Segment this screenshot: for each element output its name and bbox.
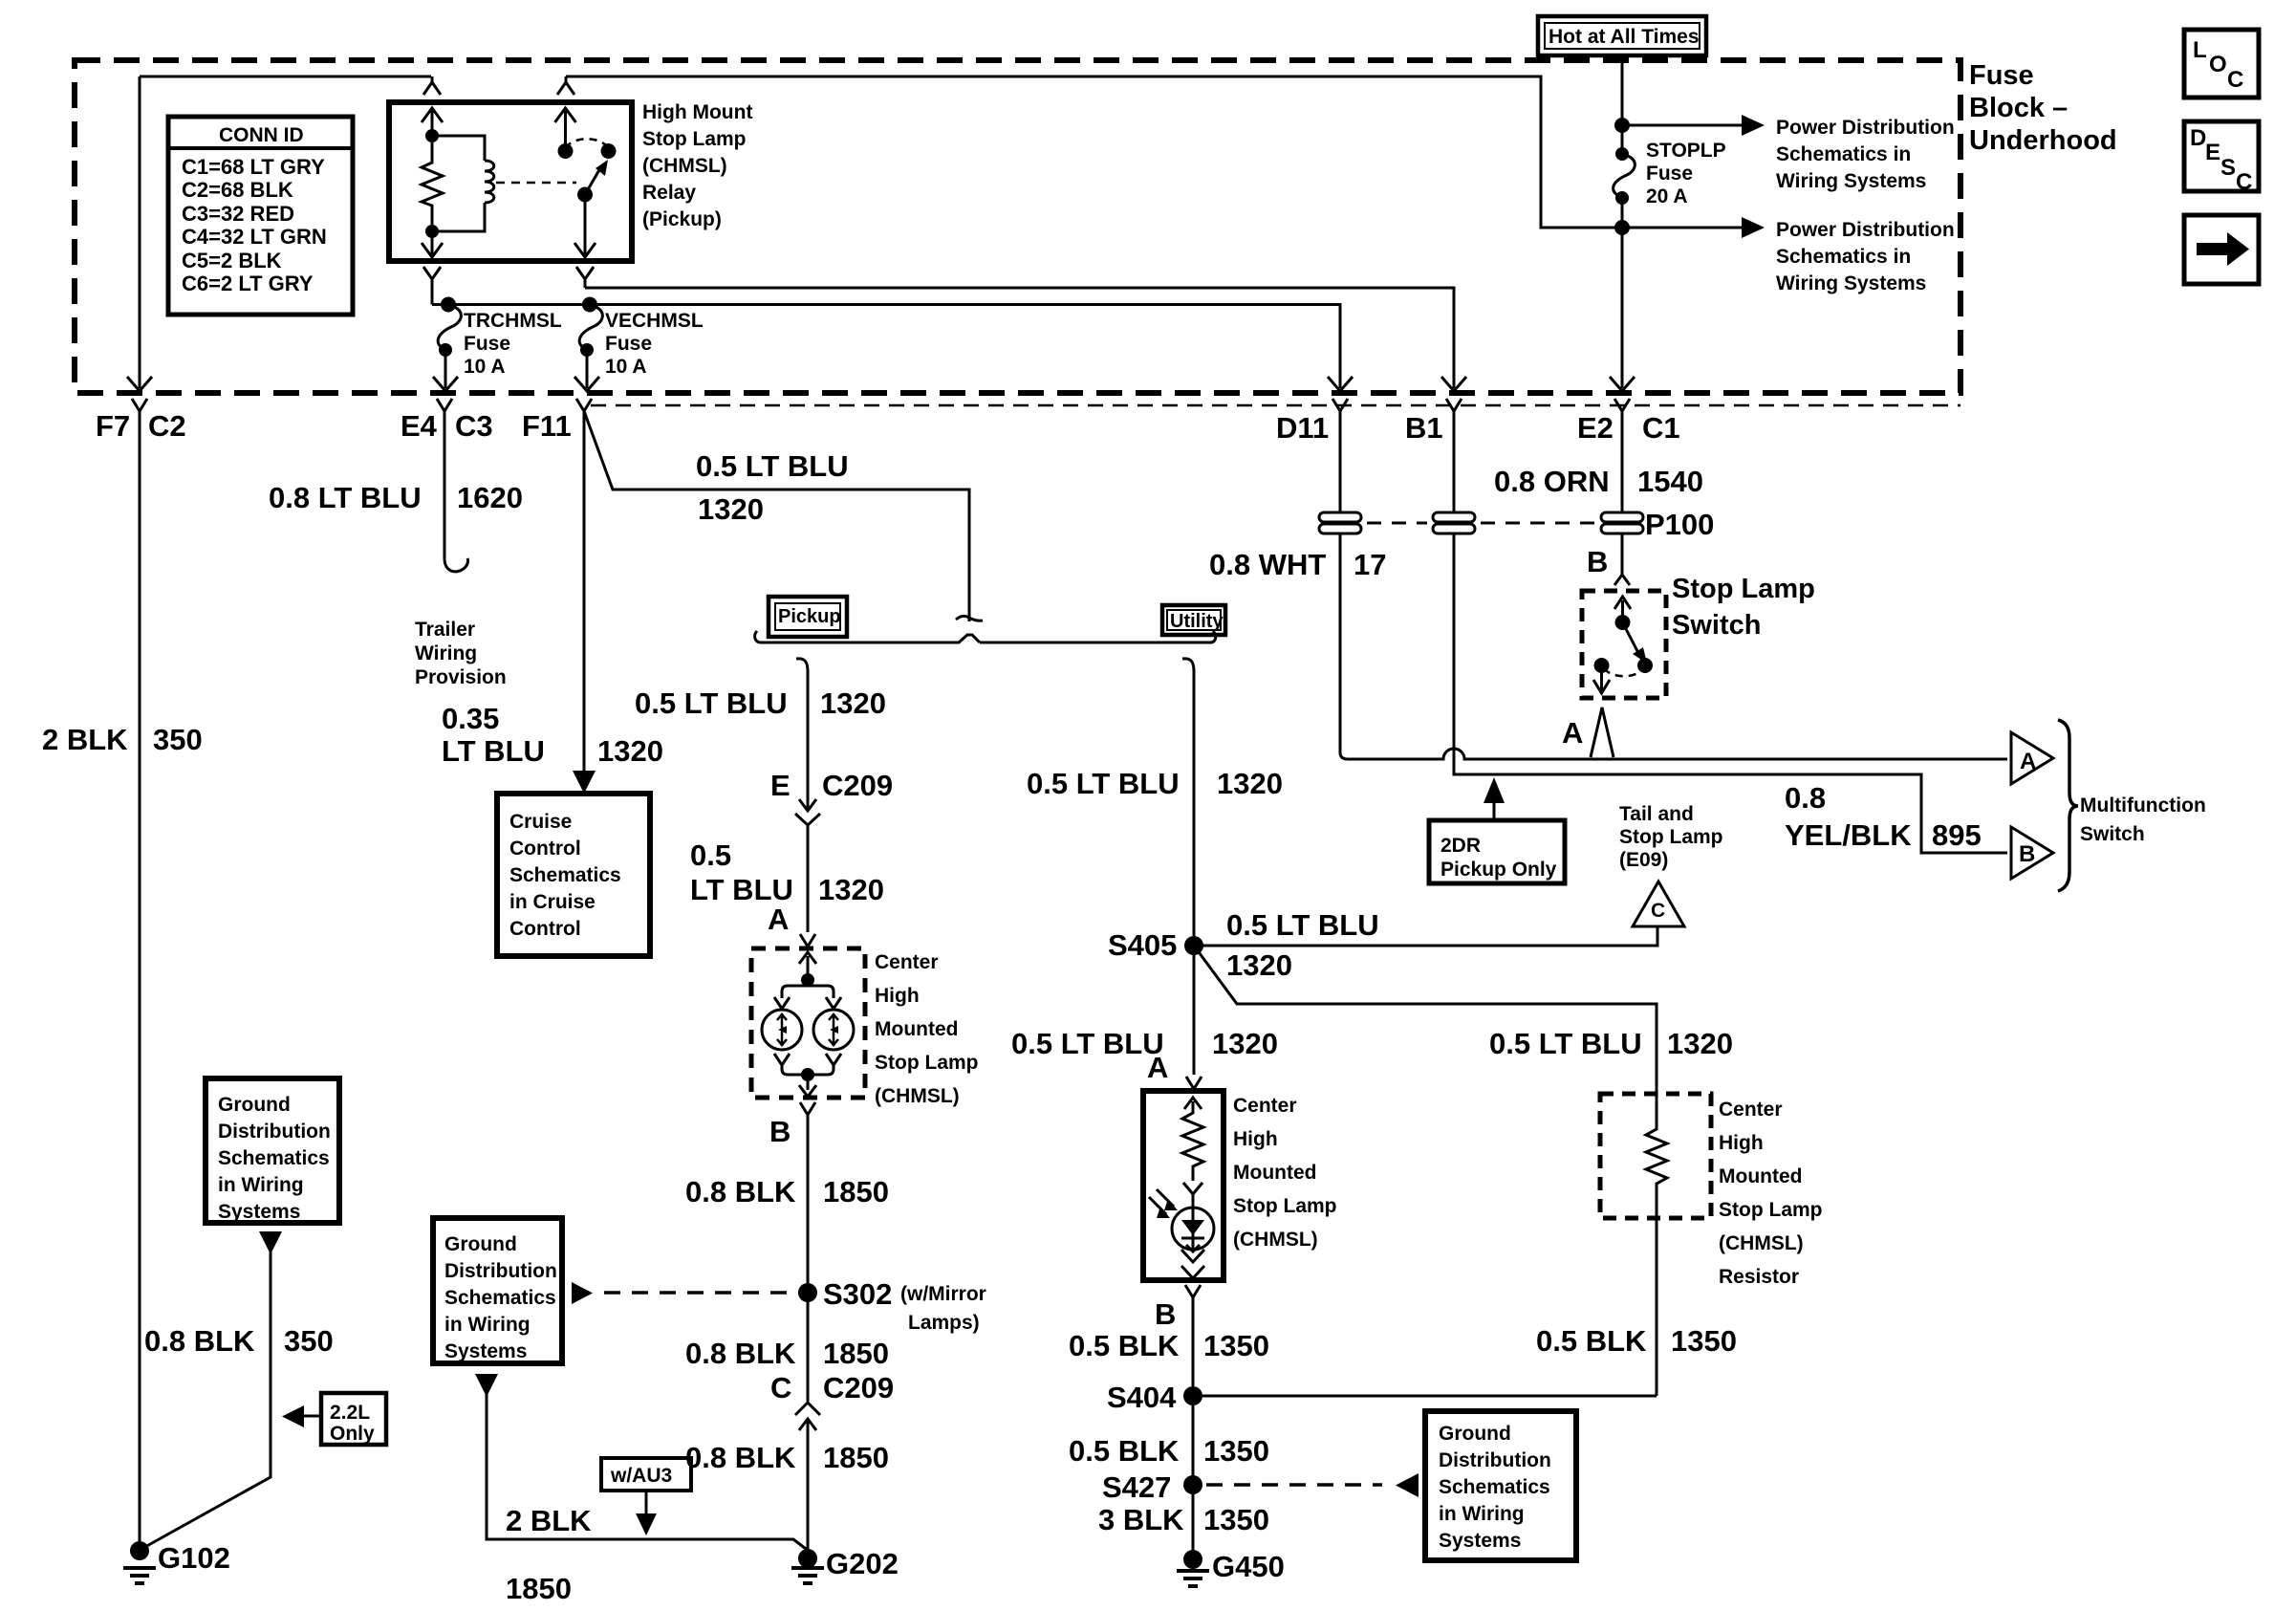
- svg-text:0.8 LT BLU: 0.8 LT BLU: [269, 481, 422, 514]
- arrow from w/AU3 to ground wire: [645, 1491, 648, 1515]
- svg-text:Wiring Systems: Wiring Systems: [1776, 170, 1926, 192]
- splice S404: [1183, 1386, 1202, 1405]
- svg-text:Stop Lamp: Stop Lamp: [875, 1052, 979, 1074]
- wire: utility CHMSL feed below S405: [1193, 946, 1196, 1075]
- connector chevron above relay coil pin: [423, 76, 441, 95]
- svg-text:Switch: Switch: [2080, 823, 2145, 845]
- svg-text:1320: 1320: [820, 686, 886, 720]
- connector chevron at pickup CHMSL pin A: [800, 934, 815, 947]
- wire: relay switch output to B1: [585, 288, 1454, 388]
- svg-text:Power Distribution: Power Distribution: [1776, 117, 1955, 139]
- svg-text:1850: 1850: [823, 1337, 889, 1370]
- terminal chevron E4/C3: [437, 399, 452, 425]
- svg-text:E2: E2: [1577, 411, 1614, 445]
- svg-text:A: A: [768, 903, 789, 936]
- svg-text:895: 895: [1932, 818, 1982, 852]
- resistor element: [1646, 1094, 1667, 1218]
- svg-text:Mounted: Mounted: [1233, 1162, 1316, 1184]
- open arrowhead into border at F11: [574, 377, 599, 391]
- arrow to Power Distribution (upper): [1622, 124, 1745, 127]
- svg-text:(E09): (E09): [1619, 849, 1668, 871]
- fuse VECHMSL 10A: [582, 297, 597, 313]
- svg-text:C3: C3: [455, 409, 493, 443]
- svg-text:C209: C209: [822, 769, 893, 802]
- svg-text:0.8 ORN: 0.8 ORN: [1494, 465, 1610, 498]
- utility LED CHMSL box: [1143, 1091, 1224, 1280]
- CONN ID table: [168, 117, 353, 315]
- svg-text:LT BLU: LT BLU: [442, 734, 545, 768]
- svg-text:S302: S302: [823, 1277, 892, 1311]
- arrow legend box: [2184, 215, 2259, 284]
- svg-text:Stop Lamp: Stop Lamp: [642, 128, 747, 150]
- svg-text:2DR: 2DR: [1440, 835, 1481, 857]
- dashed actuation link coil to switch: [496, 182, 576, 185]
- svg-text:1320: 1320: [597, 734, 663, 768]
- svg-text:Schematics: Schematics: [1439, 1476, 1550, 1498]
- svg-text:0.5 BLK: 0.5 BLK: [1069, 1329, 1180, 1362]
- svg-text:Only: Only: [330, 1423, 375, 1445]
- svg-text:B: B: [2019, 841, 2035, 867]
- svg-text:1850: 1850: [506, 1572, 572, 1605]
- svg-text:Trailer: Trailer: [415, 619, 475, 641]
- svg-text:Center: Center: [1233, 1095, 1297, 1117]
- svg-text:1850: 1850: [823, 1441, 889, 1474]
- harness bus line (Pickup side) with break: [755, 631, 980, 642]
- svg-text:1320: 1320: [1226, 948, 1292, 982]
- svg-text:w/AU3: w/AU3: [610, 1465, 672, 1487]
- terminal chevron F7/C2: [132, 399, 147, 425]
- svg-text:Power Distribution: Power Distribution: [1776, 219, 1955, 241]
- svg-text:C: C: [770, 1371, 791, 1404]
- ground G102: [130, 1541, 149, 1560]
- wire: relay switch top to STOPLP fuse feed: [566, 76, 1622, 228]
- svg-text:Underhood: Underhood: [1969, 125, 2117, 156]
- svg-text:1540: 1540: [1637, 465, 1703, 498]
- stop lamp switch: output arrow down: [1593, 665, 1610, 693]
- svg-text:350: 350: [284, 1324, 334, 1358]
- dashed pass-through line linking grommets: [1367, 522, 1427, 525]
- stop lamp switch: input arrow up and contact: [1614, 597, 1631, 622]
- svg-text:in Wiring: in Wiring: [218, 1174, 304, 1196]
- svg-text:1620: 1620: [457, 481, 523, 514]
- svg-text:S405: S405: [1108, 928, 1177, 962]
- ground distribution box 1: [206, 1078, 339, 1223]
- svg-text:LT BLU: LT BLU: [690, 873, 793, 906]
- svg-text:in Wiring: in Wiring: [444, 1314, 531, 1336]
- wire: utility CHMSL return 0.5 BLK 1350: [1192, 1297, 1195, 1553]
- relay K1: High Mount Stop Lamp (CHMSL) Relay (Pickup) box: [389, 102, 632, 261]
- svg-text:B1: B1: [1405, 411, 1443, 445]
- svg-text:CONN ID: CONN ID: [219, 124, 304, 146]
- svg-text:STOPLP: STOPLP: [1646, 140, 1726, 162]
- svg-text:in Cruise: in Cruise: [509, 891, 596, 913]
- wire: B1 branch down: [1454, 411, 2007, 853]
- wire: S404 to resistor branch return: [1193, 1395, 1657, 1398]
- wire: S405 to tail/stop lamp C 0.5 LT BLU 1320: [1194, 926, 1657, 946]
- connector row thin dashed line (C1 connector boundary): [591, 404, 1960, 407]
- svg-text:F7: F7: [96, 409, 130, 443]
- arrow from 2DR box up to YEL/BLK wire: [1493, 801, 1496, 820]
- terminal chevron D11: [1332, 399, 1348, 425]
- grommet P100: [1601, 512, 1643, 533]
- svg-text:0.5: 0.5: [690, 838, 731, 872]
- svg-text:1350: 1350: [1203, 1329, 1269, 1362]
- wire: D11 branch 0.8 WHT 17 down to multifunction A line: [1340, 411, 1348, 759]
- svg-text:C209: C209: [823, 1371, 894, 1404]
- terminal chevron F11: [576, 399, 592, 411]
- wire: F7/C2 ground wire 2 BLK 350 down to G102: [139, 425, 141, 1551]
- relay switch arm with arrowhead: [585, 168, 600, 195]
- arrow from box 2 down to ground wire: [475, 1374, 498, 1397]
- svg-text:17: 17: [1354, 548, 1386, 581]
- lamp exit arrow down: [799, 1081, 816, 1097]
- svg-text:Hot at All Times: Hot at All Times: [1549, 26, 1700, 48]
- svg-text:0.5 LT BLU: 0.5 LT BLU: [696, 449, 849, 483]
- ground G450: [1183, 1550, 1202, 1569]
- arrow to Power Distribution (lower): [1622, 227, 1745, 229]
- svg-text:D11: D11: [1276, 411, 1329, 445]
- pickup branch drop hook: [796, 659, 808, 671]
- STOPLP fuse element: [1615, 147, 1629, 161]
- splice S405: [1184, 936, 1203, 955]
- chevrons above lamps: [774, 997, 841, 1009]
- wire: 2 BLK 1850 ground run to G202: [487, 1391, 810, 1552]
- wire: F7/C2 drop inside fuse block: [139, 76, 141, 388]
- svg-text:Distribution: Distribution: [444, 1260, 557, 1282]
- led chmsl exit double chevron: [1181, 1250, 1204, 1278]
- svg-text:Wiring: Wiring: [415, 642, 477, 664]
- svg-text:Mounted: Mounted: [875, 1018, 958, 1040]
- svg-text:350: 350: [153, 723, 203, 756]
- open arrowhead into border at E2/C1: [1610, 377, 1635, 391]
- svg-text:Systems: Systems: [1439, 1530, 1521, 1552]
- svg-text:0.8 BLK: 0.8 BLK: [685, 1337, 796, 1370]
- svg-text:YEL/BLK: YEL/BLK: [1785, 818, 1912, 852]
- svg-text:0.35: 0.35: [442, 702, 499, 735]
- svg-text:(w/Mirror: (w/Mirror: [900, 1283, 986, 1305]
- svg-text:E: E: [770, 769, 791, 802]
- svg-text:A: A: [2020, 749, 2036, 774]
- svg-text:0.5 LT BLU: 0.5 LT BLU: [1011, 1027, 1164, 1060]
- splice S302: [798, 1283, 817, 1302]
- arrow into cruise control box: [573, 771, 596, 794]
- svg-text:Switch: Switch: [1672, 610, 1761, 641]
- splice S427: [1183, 1475, 1202, 1494]
- svg-text:Fuse: Fuse: [464, 333, 510, 355]
- grommet on B1 wire: [1433, 512, 1475, 533]
- svg-text:C: C: [1651, 900, 1665, 922]
- wire: F11 branch 0.5 LT BLU 1320 to body bus: [584, 411, 969, 621]
- svg-text:G202: G202: [826, 1547, 899, 1580]
- svg-text:0.5 BLK: 0.5 BLK: [1536, 1324, 1647, 1358]
- 2.2L Only tag box: [321, 1393, 386, 1445]
- LED emission arrows: [1149, 1189, 1174, 1214]
- multifunction switch brace: [2058, 720, 2078, 891]
- connector C209 pin C pass-through chevrons: [795, 1115, 820, 1551]
- Hot at All Times box: [1538, 16, 1706, 55]
- dashed link from ground distribution box 2 to S302: [604, 1291, 801, 1295]
- relay coil pin (bottom, inside): arrow down: [422, 231, 443, 257]
- Pickup tag box: [769, 597, 847, 637]
- arrow from box 2 toward S302: [572, 1282, 593, 1304]
- open arrowhead into border at D11: [1328, 377, 1353, 391]
- svg-text:0.8 BLK: 0.8 BLK: [144, 1324, 255, 1358]
- svg-text:D: D: [2190, 125, 2206, 151]
- wire: F11 drop to cruise control 0.35 LT BLU 1320: [583, 411, 586, 776]
- terminal chevron E2/C1: [1614, 399, 1630, 425]
- cruise control box: [497, 794, 650, 956]
- svg-text:B: B: [1155, 1297, 1176, 1331]
- svg-text:G450: G450: [1212, 1550, 1285, 1583]
- LOC legend box: [2184, 30, 2259, 98]
- svg-text:Center: Center: [875, 951, 939, 973]
- led chmsl entry arrow up: [1184, 1098, 1202, 1109]
- svg-text:C4=32 LT GRN: C4=32 LT GRN: [182, 225, 327, 249]
- svg-text:Schematics in: Schematics in: [1776, 246, 1911, 268]
- coil inductor inside relay: [432, 136, 485, 161]
- svg-text:(CHMSL): (CHMSL): [1719, 1232, 1804, 1254]
- svg-text:0.5 LT BLU: 0.5 LT BLU: [1027, 767, 1180, 800]
- DESC legend box: [2184, 121, 2259, 195]
- svg-text:Wiring Systems: Wiring Systems: [1776, 272, 1926, 294]
- dashed throw arc: [566, 139, 609, 148]
- wire: VECHMSL fuse output to F11: [586, 350, 589, 388]
- terminal chevron B1: [1446, 399, 1462, 425]
- svg-text:S427: S427: [1102, 1470, 1171, 1504]
- utility branch drop hook: [1182, 659, 1194, 671]
- ground distribution box 3: [1425, 1411, 1576, 1560]
- svg-text:0.8 BLK: 0.8 BLK: [685, 1175, 796, 1208]
- svg-text:L: L: [2193, 37, 2207, 63]
- svg-text:20 A: 20 A: [1646, 185, 1688, 207]
- fuse TRCHMSL 10A: [441, 297, 456, 313]
- open arrowhead into border at B1: [1441, 377, 1466, 391]
- svg-text:Distribution: Distribution: [218, 1121, 331, 1143]
- grommet on D11 wire: [1319, 512, 1361, 533]
- svg-text:Control: Control: [509, 838, 581, 860]
- svg-text:Center: Center: [1719, 1099, 1783, 1121]
- svg-text:Stop Lamp: Stop Lamp: [1233, 1195, 1337, 1217]
- svg-text:Lamps): Lamps): [908, 1312, 980, 1334]
- svg-text:3 BLK: 3 BLK: [1098, 1503, 1184, 1536]
- svg-text:High Mount: High Mount: [642, 101, 752, 123]
- svg-text:C3=32 RED: C3=32 RED: [182, 202, 294, 226]
- stop lamp switch: output contacts: [1637, 658, 1653, 673]
- Utility tag box: [1162, 605, 1225, 635]
- stop lamp switch: arm: [1623, 622, 1639, 653]
- svg-text:C6=2 LT GRY: C6=2 LT GRY: [182, 272, 314, 295]
- svg-text:(CHMSL): (CHMSL): [1233, 1229, 1318, 1251]
- svg-text:A: A: [1562, 716, 1583, 750]
- multifunction input triangle B: [2011, 827, 2053, 879]
- svg-text:C1=68 LT GRY: C1=68 LT GRY: [182, 155, 325, 179]
- connector C209 pin E pass-through chevrons: [795, 669, 820, 932]
- wire: S405 diagonal to CHMSL resistor branch: [1194, 946, 1657, 1094]
- svg-text:10 A: 10 A: [605, 356, 647, 378]
- open arrowhead into border at F7: [127, 377, 152, 391]
- svg-text:2 BLK: 2 BLK: [42, 723, 128, 756]
- svg-text:High: High: [1719, 1132, 1764, 1154]
- svg-text:1350: 1350: [1671, 1324, 1737, 1358]
- connector chevron at utility CHMSL pin B: [1185, 1285, 1201, 1297]
- svg-text:C2: C2: [148, 409, 186, 443]
- fuse block underhood dashed box: [75, 60, 1960, 393]
- svg-text:F11: F11: [522, 409, 572, 443]
- ground G202: [798, 1549, 817, 1568]
- wire: E2/C1 branch 0.8 ORN 1540: [1621, 425, 1624, 512]
- chevrons below lamps: [774, 1054, 841, 1065]
- svg-text:(CHMSL): (CHMSL): [642, 155, 727, 177]
- svg-text:Ground: Ground: [218, 1094, 291, 1116]
- wire: relay coil output feed to fuses and D11: [432, 305, 1340, 389]
- svg-text:(CHMSL): (CHMSL): [875, 1085, 960, 1107]
- svg-text:Resistor: Resistor: [1719, 1266, 1799, 1288]
- junction dot at lower power distribution tap: [1614, 220, 1630, 235]
- svg-text:Cruise: Cruise: [509, 811, 572, 833]
- svg-text:High: High: [875, 985, 920, 1007]
- junction dot lamp feed split: [801, 973, 814, 987]
- arrow from ground distribution box 1: [259, 1231, 282, 1254]
- wire: battery feed bus from F7/C2 to relay coil top: [140, 76, 431, 78]
- svg-text:0.8: 0.8: [1785, 781, 1826, 815]
- relay switch common pin (inside): arrow up, contact dot: [555, 108, 576, 151]
- svg-text:in Wiring: in Wiring: [1439, 1503, 1525, 1525]
- CHMSL resistor dashed box: [1600, 1094, 1711, 1218]
- connector chevron above relay switch pin: [557, 76, 574, 95]
- multifunction input triangle A: [2011, 732, 2053, 784]
- resistor inside relay: [422, 136, 443, 231]
- connector chevron at utility CHMSL pin A: [1186, 1077, 1202, 1089]
- svg-text:1350: 1350: [1203, 1503, 1269, 1536]
- junction dot coil top: [425, 129, 439, 142]
- lamp bulb 1: [762, 1010, 802, 1050]
- chevron between resistor and LED: [1183, 1183, 1202, 1208]
- svg-text:Multifunction: Multifunction: [2080, 795, 2206, 816]
- lamp bulb 2: [813, 1010, 854, 1050]
- svg-text:C: C: [2227, 67, 2243, 93]
- wire: E4/C3 trailer wiring provision 0.8 LT BLU 1620: [444, 425, 468, 572]
- svg-text:P100: P100: [1645, 508, 1714, 541]
- svg-text:Pickup Only: Pickup Only: [1440, 859, 1557, 881]
- svg-text:Fuse: Fuse: [1969, 60, 2034, 91]
- svg-text:0.8 BLK: 0.8 BLK: [685, 1441, 796, 1474]
- svg-text:O: O: [2209, 52, 2227, 77]
- connector chevron below relay switch pin: [576, 267, 594, 288]
- svg-text:E4: E4: [401, 409, 438, 443]
- svg-text:Fuse: Fuse: [605, 333, 652, 355]
- open arrowhead into border at E4: [433, 377, 458, 391]
- svg-text:TRCHMSL: TRCHMSL: [464, 310, 562, 332]
- svg-text:C5=2 BLK: C5=2 BLK: [182, 249, 282, 272]
- svg-text:C2=68 BLK: C2=68 BLK: [182, 178, 293, 202]
- wire: P100 to stop lamp switch pin B: [1614, 533, 1630, 585]
- svg-text:Relay: Relay: [642, 182, 696, 204]
- svg-text:B: B: [1587, 545, 1608, 578]
- svg-text:2.2L: 2.2L: [330, 1402, 370, 1424]
- svg-text:G102: G102: [158, 1541, 230, 1575]
- svg-text:Distribution: Distribution: [1439, 1449, 1551, 1471]
- split to two lamps: [782, 980, 834, 998]
- ground distribution box 2: [433, 1218, 562, 1363]
- svg-text:Ground: Ground: [444, 1233, 517, 1255]
- wire: multifunction switch A line: [1348, 749, 2007, 759]
- wire: Hot at All Times drop: [1621, 55, 1624, 154]
- junction dot coil bottom: [425, 225, 439, 238]
- svg-text:Utility: Utility: [1170, 611, 1224, 632]
- svg-text:Stop Lamp: Stop Lamp: [1619, 826, 1723, 848]
- svg-text:Schematics: Schematics: [509, 864, 621, 886]
- svg-text:10 A: 10 A: [464, 356, 506, 378]
- relay coil pin (top, inside): arrow up: [422, 108, 443, 136]
- feeder end break mark: [956, 616, 983, 620]
- svg-text:Tail and: Tail and: [1619, 803, 1694, 825]
- svg-text:Systems: Systems: [444, 1340, 527, 1362]
- relay switch fixed contact dot: [601, 143, 617, 159]
- 2DR Pickup Only tag box: [1429, 820, 1565, 883]
- svg-text:A: A: [1147, 1051, 1168, 1084]
- svg-text:0.5 LT BLU: 0.5 LT BLU: [1489, 1027, 1642, 1060]
- lamp entry arrow up: [799, 952, 816, 980]
- relay switch output pin (inside): arrow down: [574, 195, 596, 258]
- svg-text:S: S: [2220, 155, 2236, 181]
- svg-text:Provision: Provision: [415, 666, 507, 688]
- svg-text:1350: 1350: [1203, 1434, 1269, 1468]
- wire: 0.8 BLK 350 branch down to G102: [143, 1249, 271, 1548]
- merge from two lamps: [782, 1065, 834, 1081]
- dashed link S427 to ground distribution box 3: [1206, 1483, 1382, 1487]
- svg-text:Ground: Ground: [1439, 1423, 1511, 1445]
- svg-text:1320: 1320: [1667, 1027, 1733, 1060]
- svg-text:Control: Control: [509, 918, 581, 940]
- svg-text:0.5 BLK: 0.5 BLK: [1069, 1434, 1180, 1468]
- junction dot at STOPLP feed: [1614, 118, 1630, 133]
- wire: STOPLP fuse output down to E2/C1: [1621, 198, 1624, 388]
- svg-text:Pickup: Pickup: [778, 606, 841, 627]
- svg-text:Stop Lamp: Stop Lamp: [1672, 574, 1815, 604]
- svg-text:2 BLK: 2 BLK: [506, 1504, 592, 1537]
- wire: TRCHMSL fuse output to E4: [444, 350, 447, 388]
- svg-text:S404: S404: [1107, 1381, 1177, 1414]
- svg-text:Block –: Block –: [1969, 93, 2068, 123]
- svg-text:VECHMSL: VECHMSL: [605, 310, 704, 332]
- svg-text:Schematics: Schematics: [444, 1287, 556, 1309]
- svg-text:C1: C1: [1642, 411, 1680, 445]
- connector chevron below relay coil pin: [423, 267, 441, 305]
- connector chevron at pickup CHMSL pin B: [800, 1102, 815, 1115]
- harness bus line (Utility side): [980, 631, 1216, 642]
- svg-text:C: C: [2236, 169, 2252, 195]
- svg-text:Mounted: Mounted: [1719, 1165, 1802, 1187]
- svg-text:Fuse: Fuse: [1646, 163, 1693, 185]
- svg-text:Schematics in: Schematics in: [1776, 143, 1911, 165]
- junction dot lamp return merge: [801, 1068, 814, 1081]
- svg-text:1320: 1320: [818, 873, 884, 906]
- svg-text:Schematics: Schematics: [218, 1147, 330, 1169]
- svg-text:1320: 1320: [1212, 1027, 1278, 1060]
- svg-text:Stop Lamp: Stop Lamp: [1719, 1199, 1823, 1221]
- svg-text:1320: 1320: [1217, 767, 1283, 800]
- svg-text:0.5 LT BLU: 0.5 LT BLU: [1226, 908, 1379, 942]
- LED lamp: [1172, 1208, 1214, 1250]
- pickup twin-lamp CHMSL dashed box: [751, 948, 865, 1098]
- svg-text:E: E: [2205, 140, 2220, 165]
- connector chevron at stop lamp switch output A: [1591, 708, 1614, 757]
- arrow from 2.2L Only box to wire: [302, 1415, 321, 1418]
- svg-text:B: B: [769, 1115, 791, 1148]
- svg-text:1850: 1850: [823, 1175, 889, 1208]
- svg-text:(Pickup): (Pickup): [642, 208, 722, 230]
- svg-text:High: High: [1233, 1128, 1278, 1150]
